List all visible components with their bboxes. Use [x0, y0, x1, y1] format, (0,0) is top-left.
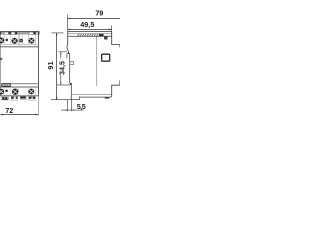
front top band white window 4: [36, 32, 38, 34]
side view inner vertical seam: [96, 36, 98, 86]
side view left profile step at rail recess: [67, 54, 70, 83]
top terminal box outlines: [0, 35, 38, 45]
side view bottom dark detail near right corner: [105, 97, 109, 99]
side view right (front face) edge upper: [112, 32, 120, 48]
dim 49,5 dimension line: [68, 28, 112, 30]
bottom foot 1: [2, 97, 9, 101]
dim 34,5 lower arrowhead: [60, 83, 61, 86]
side view bottom edge: [80, 95, 112, 97]
svg-text:34,5: 34,5: [57, 61, 66, 75]
dim 49,5 right extension line: [111, 26, 113, 32]
dim 72 dimension line: [0, 114, 38, 116]
dim 79 left extension line: [67, 15, 69, 32]
product label dark rectangle: [2, 84, 11, 87]
top small coil terminal dot: [6, 39, 9, 42]
label dark speck: [4, 84, 5, 87]
svg-text:79: 79: [95, 8, 103, 17]
side view top seam upper: [68, 33, 112, 35]
dim 5,5 left arrowhead: [65, 109, 68, 110]
side view left edge lower: [70, 85, 72, 100]
front view top band (housing top face): [0, 32, 39, 35]
side view handle window: [102, 54, 110, 61]
front top band dark segment 1: [0, 32, 1, 35]
front top band dark segment 2: [8, 32, 11, 35]
label light strip: [3, 84, 10, 87]
front top band dark segment 3: [15, 32, 17, 35]
bottom terminal screw 2: [12, 89, 18, 95]
bottom terminal screw 1: [0, 89, 4, 95]
front top band white window 3: [29, 32, 33, 34]
dim 34,5 upper dimension line: [60, 52, 62, 58]
side view latch bump: [70, 62, 74, 65]
side view top edge: [68, 31, 112, 33]
dim 72 left arrowhead: [0, 114, 3, 116]
dim 91 top arrowhead: [56, 33, 58, 36]
dim 34,5 top extension tick: [59, 51, 68, 53]
side view bottom foot step vertical: [79, 96, 81, 100]
dim 5,5 dimension line: [61, 109, 84, 111]
front top band white window 1: [4, 32, 8, 34]
body line below label: [0, 86, 38, 88]
svg-text:72: 72: [5, 106, 13, 115]
dim 91 bottom arrowhead: [56, 97, 58, 100]
front view bottom edge: [0, 95, 38, 97]
dim 34,5 upper arrowhead: [60, 52, 61, 55]
dim 34,5 lower dimension line: [60, 75, 62, 85]
top terminal screw 4: [29, 38, 35, 44]
front view separation line below top terminals: [0, 46, 38, 48]
bottom small coil terminal dot: [5, 90, 8, 93]
side view DIN rail hook square: [104, 36, 107, 39]
bottom foot 4: [29, 96, 36, 100]
dim 5,5 right extension line: [71, 100, 73, 111]
dim 5,5 right arrowhead: [72, 109, 75, 110]
front view left edge: [0, 32, 1, 97]
dim 91 bottom extension line: [51, 99, 80, 101]
bottom foot 3: [20, 96, 26, 99]
dim 34,5 bottom extension tick: [57, 84, 71, 86]
side view bottom clip nub: [70, 83, 72, 85]
side view top solid dark block: [99, 34, 104, 37]
bottom terminal box outlines: [4, 87, 35, 95]
side view right front face lower step: [112, 81, 120, 96]
bottom foot 2: [11, 96, 17, 100]
side view clip slot left lip: [66, 54, 68, 59]
side view top seam lower: [68, 35, 111, 37]
front top band dark segment 4: [34, 32, 36, 35]
dim 91 dimension line: [56, 33, 58, 100]
side view left (back) edge upper: [67, 32, 69, 54]
top terminal screw 1: [0, 38, 4, 44]
svg-text:91: 91: [46, 61, 55, 69]
dim 49,5 right arrowhead: [109, 29, 112, 31]
side view bottom seam line: [71, 94, 111, 96]
dim 72 right arrowhead: [36, 114, 39, 116]
top terminal screw 2: [12, 38, 18, 44]
top terminal screw 3 (small): [19, 39, 23, 43]
small fixing hole on body left: [0, 58, 2, 60]
dim 72 right extension line: [37, 96, 39, 115]
svg-text:49,5: 49,5: [80, 20, 94, 29]
body line above label: [10, 83, 38, 85]
front top band dark segment 5 (right corner): [38, 32, 39, 35]
front top band white window 2: [11, 32, 15, 34]
label dark speck 2: [7, 84, 8, 87]
dim 79 left arrowhead: [68, 18, 71, 20]
dim 49,5 left arrowhead: [68, 29, 71, 31]
svg-text:5,5: 5,5: [77, 102, 86, 111]
side view top hatch marks: [78, 34, 101, 37]
bottom terminal screw 4: [28, 89, 34, 95]
dim 5,5 left extension line: [67, 100, 69, 111]
dim 79 dimension line: [68, 18, 120, 20]
front view top band top edge line: [0, 31, 39, 33]
dim 91 top extension line: [51, 32, 63, 34]
front view right edge: [37, 32, 39, 97]
